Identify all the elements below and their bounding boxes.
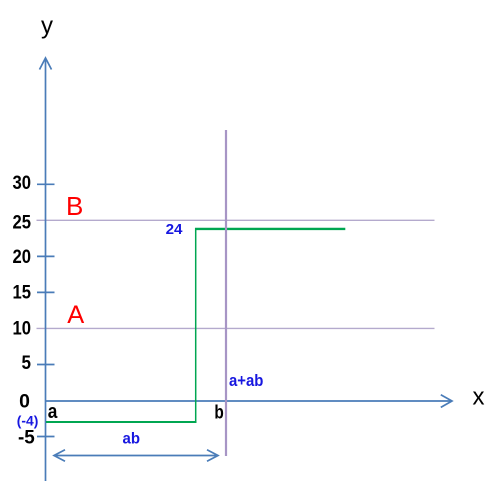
svg-text:y: y <box>41 13 53 40</box>
vertical line at x=a+ab <box>225 130 227 456</box>
gridline y=10 <box>37 327 435 329</box>
tick y=20 <box>37 255 55 257</box>
gridline y=25 <box>37 219 435 221</box>
svg-text:30: 30 <box>13 173 32 194</box>
tick y=15 <box>37 291 55 293</box>
svg-text:20: 20 <box>13 247 32 268</box>
svg-text:b: b <box>214 402 223 423</box>
svg-text:a+ab: a+ab <box>229 371 263 390</box>
double arrow for interval ab <box>56 455 216 457</box>
step function high segment y=24 <box>195 228 345 230</box>
tick y=5 <box>37 364 55 366</box>
svg-text:A: A <box>67 301 84 329</box>
x-axis <box>46 400 452 402</box>
x-axis arrowhead <box>441 395 452 408</box>
y-axis <box>45 58 47 481</box>
svg-text:a: a <box>48 401 58 423</box>
svg-text:5: 5 <box>22 353 32 374</box>
svg-text:10: 10 <box>13 319 32 340</box>
svg-text:-5: -5 <box>18 428 35 449</box>
svg-text:24: 24 <box>166 222 183 238</box>
svg-text:B: B <box>66 191 83 221</box>
tick y=30 <box>37 183 55 185</box>
svg-text:15: 15 <box>13 283 32 304</box>
svg-text:0: 0 <box>19 392 30 413</box>
svg-text:x: x <box>473 383 485 410</box>
tick y=-5 <box>37 436 55 438</box>
svg-text:(-4): (-4) <box>17 414 39 429</box>
step function low segment y=-4 <box>46 421 197 423</box>
step function riser at x=b <box>195 228 197 422</box>
svg-text:25: 25 <box>13 212 32 233</box>
svg-text:ab: ab <box>123 431 141 448</box>
y-axis arrowhead <box>40 58 52 70</box>
